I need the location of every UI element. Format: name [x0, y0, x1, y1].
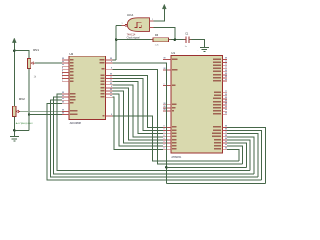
pin U2 OUT3 — [100, 79, 112, 82]
label R3 — [155, 34, 159, 37]
wire RC node to R3 — [116, 39, 153, 41]
pin U2 IN0 — [62, 58, 73, 61]
node VREF- tap — [28, 113, 31, 116]
wire P3.3 wrap — [227, 137, 254, 174]
wire OUT7 to P1.6 — [112, 94, 163, 146]
pin U2 VREF(+) — [62, 109, 77, 112]
wire P3.5 wrap — [227, 143, 246, 167]
pin U2 IN3 — [62, 67, 73, 70]
svg-text:1: 1 — [122, 23, 123, 25]
wire U3:A output to clock node — [116, 24, 124, 26]
wire RV1 bottom to ground net — [28, 69, 30, 131]
pin U1 XTAL1 — [163, 57, 177, 60]
wire U2 ADD A wrap to U1 — [57, 94, 250, 171]
pin U2 CLOCK — [99, 58, 112, 61]
ground (top right) — [200, 47, 209, 51]
text RV2 state — [16, 122, 34, 125]
pin U1 P3.6/WR — [214, 144, 227, 147]
svg-text:RV1: RV1 — [33, 48, 39, 52]
wire ground bus to RV1 bottom — [14, 129, 29, 131]
pin U1 P1.4 — [163, 138, 176, 141]
text note above U1 — [197, 49, 199, 51]
pin U2 IN5 — [62, 73, 73, 76]
value C1 — [185, 46, 188, 48]
pin U1 P0.4/AD4 — [213, 70, 227, 73]
pin U1 P3.0/RXD — [213, 125, 227, 128]
potentiometer RV1 — [27, 59, 34, 69]
node clock/RC junction — [115, 38, 118, 41]
node R3/C1 junction — [174, 38, 177, 41]
label ADC0808 — [70, 121, 82, 125]
wire RV1 wiper to U2 IN1 — [35, 62, 62, 64]
pin U1 P0.6/AD6 — [213, 76, 227, 79]
wire VREF- to ground column — [29, 114, 62, 116]
pin U2 IN2 — [62, 64, 73, 67]
pin U1 P0.0/AD0 — [213, 57, 227, 60]
wire OUT1 to P1.0 — [112, 76, 163, 128]
wire U2 CLOCK to oscillator — [112, 59, 116, 61]
pin U1 P0.2/AD2 — [213, 63, 227, 66]
wire U2 ADD B wrap to U1 — [54, 97, 254, 174]
pin U2 IN6 — [62, 76, 73, 79]
pin U1 P2.3/A11 — [213, 100, 227, 103]
resistor R3 — [153, 38, 169, 42]
value RV1 1k — [34, 76, 37, 79]
pin U1 P2.7/A15 — [213, 112, 227, 115]
wire OUT4 to P1.3 — [112, 85, 163, 137]
pin U1 P1.7 — [163, 147, 176, 150]
label RV1 — [33, 48, 39, 52]
pin U2 ALE — [62, 101, 73, 104]
pin U1 P2.4/A12 — [213, 103, 227, 106]
node VCC junction — [13, 49, 16, 52]
pin U2 OUT7 — [100, 92, 112, 95]
wire U2 ADD C wrap to U1 — [50, 100, 257, 177]
pin U1 P1.3 — [163, 135, 176, 138]
wire P3.4 wrap — [227, 140, 250, 171]
schmitt-trigger inverter U3:A — [125, 18, 150, 32]
pin U2 IN7 — [62, 79, 73, 82]
pin U1 EA — [163, 109, 174, 112]
pin U1 P0.5/AD5 — [213, 73, 227, 76]
wire rail VCC down to RV2 — [13, 51, 15, 107]
wire C1 to ground — [189, 40, 205, 48]
pin U2 VREF(-) — [62, 112, 77, 115]
wire START to P3.5 — [112, 63, 166, 183]
node ground junction — [13, 129, 16, 132]
label Clock signal — [127, 37, 140, 40]
label U1 — [171, 51, 175, 55]
node START branch — [165, 166, 168, 169]
pin U2 ADD A — [62, 92, 75, 95]
pin U1 P2.0/A8 — [214, 90, 227, 93]
wire P3.0 wrap — [227, 127, 265, 183]
pin U1 ALE — [163, 106, 175, 109]
svg-text:U1: U1 — [171, 51, 175, 55]
pin U2 OUT5 — [100, 86, 112, 89]
potentiometer RV2 — [13, 106, 20, 116]
pin U1 P2.1/A9 — [214, 94, 227, 97]
label U2 — [69, 52, 73, 56]
wire RV2 bottom to ground junction — [13, 117, 15, 137]
wire VCC to RV1 top — [14, 51, 29, 59]
pin U2 OUT6 — [100, 89, 112, 92]
wire clock node vertical — [115, 25, 117, 60]
svg-text:Clock signal: Clock signal — [127, 37, 140, 40]
svg-text:U2: U2 — [69, 52, 73, 56]
pin U2 OE — [102, 114, 112, 117]
pin U1 P3.2/INT0 — [212, 131, 227, 134]
wire bottom net to P3.0 — [166, 182, 265, 184]
pin U1 P2.6/A14 — [213, 109, 227, 112]
label 74HC14 — [127, 33, 136, 36]
svg-text:RV2: RV2 — [19, 97, 25, 101]
capacitor C1 — [186, 37, 189, 43]
pin U1 P2.2/A10 — [213, 97, 227, 100]
pin U2 START — [99, 61, 112, 64]
pin U2 OUT4 — [100, 83, 112, 86]
pin U1 P3.5/T1 — [214, 141, 227, 144]
wire OE to P3.7 — [112, 116, 238, 161]
pin U1 P3.1/TXD — [213, 128, 227, 131]
pin U2 IN1 — [62, 61, 73, 64]
pin U2 OUT2 — [100, 76, 112, 79]
svg-text:A=V*(Rb/@4 5kV: A=V*(Rb/@4 5kV — [16, 122, 34, 125]
wire RV2 wiper to U2 VREF+ — [20, 110, 62, 112]
label RV2 — [19, 97, 25, 101]
pin U1 P1.6 — [163, 144, 176, 147]
label C1 — [185, 32, 189, 35]
pin U1 P1.0 — [163, 125, 176, 128]
svg-text:AT89C51: AT89C51 — [171, 156, 182, 159]
wire EOC to P3.6 — [112, 69, 242, 164]
wire P3.7 wrap — [227, 149, 239, 161]
wire P3.6 wrap — [227, 146, 242, 164]
wire U3:A input to RC node — [150, 28, 175, 40]
power VCC terminal (top) — [162, 4, 166, 9]
pin U2 ADD B — [62, 95, 75, 98]
wire OUT6 to P1.5 — [112, 91, 163, 143]
pin U1 P3.3/INT1 — [212, 135, 227, 138]
pin U1 P3.4/T0 — [214, 138, 227, 141]
pin 2 label U3:A — [152, 19, 153, 21]
pin U1 P2.5/A13 — [213, 106, 227, 109]
pin U1 RST — [163, 83, 175, 86]
value R3 1.2k — [155, 45, 160, 47]
ground (left) — [10, 136, 19, 141]
IC U2 ADC0808 body — [69, 56, 106, 119]
wire OUT3 to P1.2 — [112, 82, 163, 134]
label AT89C51 — [171, 156, 182, 159]
pin U1 PSEN — [163, 103, 176, 106]
svg-text:U3:A: U3:A — [127, 13, 133, 17]
svg-text:ADC0808: ADC0808 — [70, 121, 82, 125]
wire U3:A top pin to VCC — [150, 9, 165, 21]
label U3:A — [127, 13, 133, 17]
pin U1 XTAL2 — [163, 68, 177, 71]
wire OUT5 to P1.4 — [112, 88, 163, 140]
pin U1 P0.3/AD3 — [213, 66, 227, 69]
pin U2 EOC — [101, 67, 112, 70]
wire U2 ALE wrap to U1 — [47, 103, 262, 180]
wire R3 to C1 junction — [169, 39, 186, 41]
pin U1 P1.1 — [163, 128, 176, 131]
pin U2 OUT1 — [100, 73, 112, 76]
pin U2 OUT8 — [100, 95, 112, 98]
wire START branch east — [166, 166, 246, 168]
wire OUT8 to P1.7 — [112, 97, 163, 149]
pin U2 IN4 — [62, 70, 73, 73]
pin 1 label U3:A — [122, 23, 123, 25]
pin U1 P1.5 — [163, 141, 176, 144]
pin U1 P3.7/RD — [214, 147, 227, 150]
IC U1 AT89C51 body — [171, 55, 222, 153]
pin U1 P0.1/AD1 — [213, 60, 227, 63]
power VCC terminal (left) — [12, 38, 16, 51]
wire P3.1 wrap — [227, 131, 261, 181]
pin U2 ADD C — [62, 98, 75, 101]
pin U1 P1.2 — [163, 131, 176, 134]
pin U1 P0.7/AD7 — [213, 79, 227, 82]
wire P3.2 wrap — [227, 134, 258, 177]
wire OUT2 to P1.1 — [112, 79, 163, 131]
